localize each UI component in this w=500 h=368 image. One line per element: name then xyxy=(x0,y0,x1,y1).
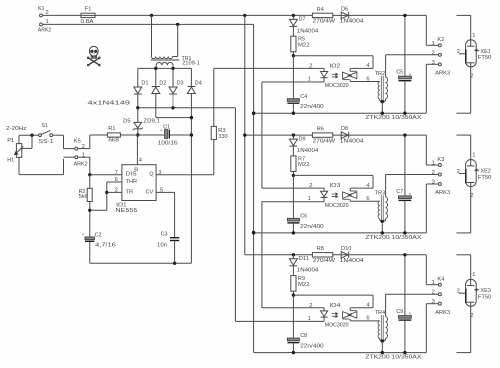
svg-text:M22: M22 xyxy=(298,162,310,168)
svg-text:R8: R8 xyxy=(317,246,324,252)
svg-text:D3: D3 xyxy=(177,80,184,86)
transformer TR1 primary lead left xyxy=(151,15,153,56)
channel bottom rail xyxy=(254,112,427,114)
svg-text:C3: C3 xyxy=(161,231,168,237)
op-amp timer IO1 NE555 body xyxy=(122,165,156,201)
svg-text:1: 1 xyxy=(472,153,475,159)
connector K2 wiring xyxy=(425,15,427,45)
svg-text:D11: D11 xyxy=(299,256,310,262)
svg-text:1N4004: 1N4004 xyxy=(297,268,319,274)
svg-text:ZTK200 10/350AX: ZTK200 10/350AX xyxy=(365,355,421,361)
diode D8 in rail xyxy=(341,132,348,139)
diode D1 xyxy=(137,68,139,87)
junction THR/TR tie xyxy=(105,191,108,194)
wire C3 to ground xyxy=(174,241,176,263)
optocoupler IO4 led xyxy=(262,307,324,309)
svg-text:2: 2 xyxy=(457,49,460,55)
transformer TR1 secondary left hook xyxy=(155,65,157,68)
svg-text:C9: C9 xyxy=(396,309,403,315)
svg-text:D4: D4 xyxy=(195,80,203,86)
flash tube XE1 trigger electrode xyxy=(465,49,467,63)
flash tube XE3 bottom electrode xyxy=(467,301,475,303)
terminal K3 pin2 xyxy=(438,173,441,176)
trigger transformer TR2 secondary top lead xyxy=(385,55,387,77)
svg-text:+: + xyxy=(409,193,412,198)
resistor R5 xyxy=(291,36,296,52)
svg-text:ARK3: ARK3 xyxy=(435,71,450,77)
svg-text:C5: C5 xyxy=(396,70,403,76)
svg-text:ARK3: ARK3 xyxy=(435,310,450,316)
wire supply rail left xyxy=(120,134,164,136)
wire K5 riser to R1 xyxy=(90,134,108,136)
terminal K5 pin 2 xyxy=(75,147,78,150)
svg-text:270/4W: 270/4W xyxy=(313,19,336,25)
diode D2 xyxy=(155,68,157,86)
diode D7 xyxy=(292,15,294,19)
svg-text:K5: K5 xyxy=(74,139,81,145)
trigger transformer TR4 secondary top lead xyxy=(385,294,387,316)
svg-text:2: 2 xyxy=(115,188,118,194)
svg-text:IO3: IO3 xyxy=(329,183,340,189)
flash tube XE2 pointer arrow xyxy=(475,169,479,172)
zener diode D5 xyxy=(137,108,139,123)
junction DIS node xyxy=(88,173,91,176)
capacitor C9 xyxy=(404,255,406,316)
svg-text:1: 1 xyxy=(432,280,435,286)
svg-text:2-20Hz: 2-20Hz xyxy=(6,126,27,132)
svg-text:D5: D5 xyxy=(123,119,131,125)
svg-text:K2: K2 xyxy=(437,37,444,43)
svg-text:D6: D6 xyxy=(341,7,348,13)
wire pot top to S1 xyxy=(19,134,39,136)
svg-text:R: R xyxy=(134,167,138,173)
junction pot wiper xyxy=(30,134,33,137)
terminal K2 pin3 xyxy=(438,63,441,66)
svg-text:MOC3020: MOC3020 xyxy=(325,203,349,209)
optocoupler IO2 arrows xyxy=(332,73,338,76)
svg-text:FT50: FT50 xyxy=(478,295,492,301)
svg-text:2: 2 xyxy=(309,63,312,69)
wire K5 pin1 left xyxy=(64,156,75,158)
svg-text:2: 2 xyxy=(470,313,473,319)
led return bus xyxy=(234,108,236,322)
svg-text:1: 1 xyxy=(432,41,435,47)
svg-text:F1: F1 xyxy=(85,6,92,12)
wire K5 pin2 right riser xyxy=(78,148,90,150)
trigger transformer TR2 secondary xyxy=(385,77,387,99)
junction top rail / transformer primary left xyxy=(150,14,153,17)
svg-text:D1: D1 xyxy=(141,80,148,86)
wire fuse to hot rail (top) xyxy=(95,14,426,16)
terminal K4 pin3 xyxy=(438,302,441,305)
transformer TR1 primary winding xyxy=(152,57,173,59)
svg-text:MOC3020: MOC3020 xyxy=(325,83,349,89)
flash tube XE1 bottom electrode xyxy=(467,62,475,64)
svg-text:TR: TR xyxy=(126,190,134,196)
transformer TR1 primary lead right xyxy=(177,24,179,56)
svg-text:22n/400: 22n/400 xyxy=(300,104,324,110)
svg-text:ARK3: ARK3 xyxy=(435,190,450,196)
svg-text:1N4004: 1N4004 xyxy=(297,148,319,154)
optocoupler IO3 arrows xyxy=(332,193,338,196)
junction C3 ground xyxy=(173,262,176,265)
wire K5 pin1 right to DIS node xyxy=(78,156,90,158)
wire R2 bottom xyxy=(89,202,91,238)
junction R2/C2/TR link xyxy=(88,209,91,212)
flash tube XE3 pointer arrow xyxy=(475,289,479,292)
svg-text:1N4004: 1N4004 xyxy=(340,138,365,144)
svg-text:K4: K4 xyxy=(437,277,445,283)
flash tube XE3 envelope xyxy=(466,279,477,306)
junction rail / D9 xyxy=(292,133,295,136)
svg-text:Q: Q xyxy=(149,172,154,178)
channel bottom rail xyxy=(254,352,427,354)
svg-text:2: 2 xyxy=(457,169,460,175)
svg-text:S1: S1 xyxy=(42,123,49,129)
svg-text:4,7/16: 4,7/16 xyxy=(95,242,116,248)
hot bus xyxy=(243,14,246,17)
svg-text:+: + xyxy=(82,233,85,238)
svg-text:ZD9,1: ZD9,1 xyxy=(143,119,160,125)
svg-text:XE1: XE1 xyxy=(480,49,491,55)
svg-text:D9: D9 xyxy=(299,136,306,142)
capacitor C8 xyxy=(292,295,294,338)
svg-text:SS-1: SS-1 xyxy=(39,139,54,145)
svg-text:D7: D7 xyxy=(299,17,306,23)
svg-text:+: + xyxy=(160,129,163,134)
wire TR link xyxy=(90,209,107,211)
junction rail / D11 xyxy=(292,253,295,256)
svg-text:2: 2 xyxy=(432,290,435,296)
flash tube XE2 trigger electrode xyxy=(465,169,467,183)
svg-text:M22: M22 xyxy=(298,282,310,288)
svg-text:100/16: 100/16 xyxy=(158,141,178,147)
svg-text:ZTK200 10/350AX: ZTK200 10/350AX xyxy=(365,235,421,241)
junction secondary right xyxy=(171,67,174,70)
trigger transformer TR2 core xyxy=(381,76,382,102)
wire R9 node to optotriac pin4 xyxy=(293,294,373,296)
trigger transformer TR3 core xyxy=(381,195,382,221)
flash tube XE2 bottom electrode xyxy=(467,182,475,184)
junction R7 node xyxy=(292,174,295,177)
optocoupler IO2 led xyxy=(323,68,325,71)
trigger transformer TR2 primary xyxy=(378,82,380,100)
svg-text:22n/400: 22n/400 xyxy=(300,344,324,350)
wire R5 node to optotriac pin4 xyxy=(293,55,373,57)
svg-text:C4: C4 xyxy=(300,94,308,100)
svg-text:IO4: IO4 xyxy=(329,303,341,309)
flash tube XE3 bracket xyxy=(456,254,470,256)
svg-text:P1: P1 xyxy=(7,138,14,144)
svg-text:270/4W: 270/4W xyxy=(313,138,336,144)
svg-text:K3: K3 xyxy=(437,157,444,163)
wire THR xyxy=(107,181,122,183)
resistor R8 in rail xyxy=(312,253,332,257)
diode D9 xyxy=(292,135,294,139)
terminal K3 pin3 xyxy=(438,183,441,186)
svg-text:IO2: IO2 xyxy=(329,63,340,69)
diode D11 xyxy=(292,255,294,259)
svg-text:1N4004: 1N4004 xyxy=(297,28,319,34)
optotriac pin6 wire xyxy=(350,320,379,322)
optotriac pin6 wire xyxy=(350,200,379,202)
optotriac pin6 wire xyxy=(350,81,379,83)
flash tube XE3 top electrode xyxy=(470,279,472,285)
optocoupler IO3 triac xyxy=(343,192,352,199)
wire DIS node to IC xyxy=(90,174,122,176)
svg-text:NE555: NE555 xyxy=(115,208,137,214)
flash tube XE1 envelope xyxy=(466,40,477,67)
svg-text:R6: R6 xyxy=(317,127,324,133)
wire K1 pin2 to fuse xyxy=(43,14,81,16)
resistor R4 in rail xyxy=(312,13,332,17)
svg-text:C6: C6 xyxy=(300,214,307,220)
wire rectifier top row xyxy=(138,67,192,69)
optocoupler IO4 arrows xyxy=(332,312,338,315)
svg-text:C2: C2 xyxy=(95,232,102,238)
junction secondary left xyxy=(154,67,157,70)
terminal K2 pin2 xyxy=(438,53,441,56)
wire led link ch1-ch2 xyxy=(262,81,324,83)
svg-text:2109-1: 2109-1 xyxy=(182,61,200,67)
flash tube XE2 top electrode xyxy=(470,160,472,166)
resistor R6 in rail xyxy=(312,133,332,137)
svg-text:1: 1 xyxy=(472,33,475,39)
capacitor C6 xyxy=(292,175,294,218)
flash tube XE2 bracket xyxy=(456,134,470,136)
trigger transformer TR4 primary xyxy=(378,321,380,339)
svg-text:2: 2 xyxy=(457,289,460,295)
svg-text:2: 2 xyxy=(432,170,435,176)
flash tube XE1 bracket xyxy=(456,14,470,16)
trigger transformer TR3 secondary xyxy=(385,197,387,219)
pin 4 reset lead xyxy=(136,135,138,165)
terminal K4 pin1 xyxy=(438,283,441,286)
wire dc rail1 xyxy=(138,107,236,109)
svg-text:+: + xyxy=(409,73,412,78)
transformer TR1 secondary winding xyxy=(156,62,173,65)
trigger transformer TR3 secondary top lead xyxy=(385,175,387,197)
svg-text:2: 2 xyxy=(309,303,312,309)
svg-text:6: 6 xyxy=(366,196,369,202)
trigger transformer TR4 secondary xyxy=(385,316,387,338)
svg-text:3: 3 xyxy=(432,60,435,66)
trigger transformer TR4 core xyxy=(381,315,382,341)
trigger transformer TR3 primary xyxy=(378,201,380,219)
svg-text:1N4004: 1N4004 xyxy=(340,258,365,264)
svg-text:3: 3 xyxy=(432,299,435,305)
svg-text:270/4W: 270/4W xyxy=(313,258,336,264)
svg-text:1: 1 xyxy=(472,272,475,278)
wire dc rail2 (D2-D4) xyxy=(156,117,192,119)
resistor R3 xyxy=(211,126,216,139)
svg-text:2: 2 xyxy=(470,74,473,80)
flash tube XE2 envelope xyxy=(466,160,477,187)
danger skull symbol xyxy=(87,46,100,66)
svg-text:1N4004: 1N4004 xyxy=(340,19,365,25)
svg-text:XE2: XE2 xyxy=(480,169,491,175)
svg-text:+: + xyxy=(409,312,412,317)
svg-text:1: 1 xyxy=(432,161,435,167)
pot wiper wire xyxy=(22,147,32,149)
svg-text:R1: R1 xyxy=(108,126,115,132)
connector K3 wiring xyxy=(425,135,427,165)
diode D4 xyxy=(190,68,192,86)
svg-text:22n/400: 22n/400 xyxy=(300,224,324,230)
fuse F1 xyxy=(81,13,95,17)
svg-text:ZTK200 10/350AX: ZTK200 10/350AX xyxy=(365,115,421,121)
trigger transformer TR3 bottom hooks xyxy=(380,219,383,222)
wire led return ch3 xyxy=(235,320,324,322)
wire K1 pin1 neutral xyxy=(43,23,254,25)
pot top lead xyxy=(18,135,20,143)
trigger transformer TR4 bottom hooks xyxy=(380,339,383,342)
svg-text:FT50: FT50 xyxy=(478,55,492,61)
junction supply rail / D4 column xyxy=(190,133,193,136)
svg-text:C8: C8 xyxy=(300,333,307,339)
junction neutral / transformer primary right xyxy=(176,23,179,26)
junction rail / D7 xyxy=(292,14,295,17)
wire channel rail from hot bus (K4 channel) xyxy=(245,254,426,256)
junction neutral / ch1 bottom rail xyxy=(252,112,255,115)
svg-text:10n: 10n xyxy=(157,243,167,249)
svg-text:D10: D10 xyxy=(341,246,352,252)
svg-text:D2: D2 xyxy=(159,80,166,86)
svg-text:7: 7 xyxy=(115,170,118,176)
svg-text:5k6: 5k6 xyxy=(79,194,88,200)
transformer TR1 core xyxy=(151,59,180,61)
svg-text:2: 2 xyxy=(309,183,312,189)
wire channel rail from hot bus (K3 channel) xyxy=(245,134,426,136)
svg-text:THR: THR xyxy=(126,179,138,185)
junction R5 node xyxy=(292,54,295,57)
optocoupler IO4 triac xyxy=(343,312,352,319)
svg-text:K1: K1 xyxy=(38,6,45,12)
wire TR xyxy=(107,191,122,193)
diode D3 xyxy=(172,68,174,87)
wire R7 node to optotriac pin4 xyxy=(293,174,373,176)
svg-text:6k8: 6k8 xyxy=(108,138,119,144)
svg-text:ARK2: ARK2 xyxy=(74,162,88,168)
svg-text:H1: H1 xyxy=(7,157,14,163)
transformer TR1 secondary right hook xyxy=(172,65,174,68)
svg-text:6: 6 xyxy=(115,177,118,183)
pot bottom lead xyxy=(18,157,20,174)
diode D10 in rail xyxy=(341,252,348,259)
resistor R9 xyxy=(291,276,296,292)
flash tube XE1 pointer arrow xyxy=(475,49,479,52)
channel bottom rail xyxy=(254,232,427,234)
svg-text:6: 6 xyxy=(366,76,369,82)
flash tube XE3 trigger electrode xyxy=(465,289,467,303)
svg-text:C7: C7 xyxy=(396,189,403,195)
svg-text:TR4: TR4 xyxy=(375,310,386,316)
wire S1 to K5 pin2 xyxy=(53,134,64,136)
svg-text:D8: D8 xyxy=(341,126,348,132)
svg-text:R4: R4 xyxy=(317,7,325,13)
diode D6 in rail xyxy=(341,12,348,19)
connector K4 wiring xyxy=(425,255,427,285)
resistor R7 xyxy=(291,156,296,172)
svg-text:4x1N4149: 4x1N4149 xyxy=(88,101,131,107)
svg-text:ARK2: ARK2 xyxy=(38,28,52,34)
neutral bus xyxy=(253,24,255,352)
terminal K2 pin1 xyxy=(438,44,441,47)
wire CV to C3 xyxy=(156,191,175,193)
terminal K5 pin 1 xyxy=(75,156,78,159)
terminal K1 pin 1 xyxy=(40,23,43,26)
wire C2 to ground rail xyxy=(89,242,91,263)
svg-text:2: 2 xyxy=(432,50,435,56)
svg-text:TR3: TR3 xyxy=(375,191,386,197)
svg-text:MOC3020: MOC3020 xyxy=(325,323,349,329)
svg-text:TR2: TR2 xyxy=(375,71,386,77)
svg-text:330: 330 xyxy=(218,134,228,140)
wire supply rail right xyxy=(170,134,191,136)
wire R3 top riser to led chain xyxy=(213,68,215,126)
resistor R1 xyxy=(107,133,120,137)
svg-text:2: 2 xyxy=(470,193,473,199)
capacitor C4 xyxy=(292,56,294,99)
capacitor C5 xyxy=(404,15,406,76)
svg-text:M22: M22 xyxy=(298,42,310,48)
trigger transformer TR2 bottom hooks xyxy=(380,99,383,102)
wire led link ch2-ch3 xyxy=(262,201,324,203)
resistor R2 xyxy=(89,175,91,189)
terminal K1 pin 2 xyxy=(40,14,43,17)
capacitor C7 xyxy=(404,135,406,196)
svg-text:CV: CV xyxy=(145,190,153,196)
wire Q to R3 xyxy=(213,140,215,175)
terminal K4 pin2 xyxy=(438,293,441,296)
optocoupler IO3 led xyxy=(262,187,324,189)
terminal K3 pin1 xyxy=(438,164,441,167)
junction D5 / supply rail / 555 reset lead xyxy=(136,133,139,136)
flash tube XE1 top electrode xyxy=(470,40,472,46)
junction neutral / ch2 bottom rail xyxy=(252,231,255,234)
svg-text:3: 3 xyxy=(432,180,435,186)
optocoupler IO2 triac xyxy=(343,72,352,79)
junction R9 node xyxy=(292,293,295,296)
svg-text:FT50: FT50 xyxy=(478,175,492,181)
svg-text:XE3: XE3 xyxy=(480,288,491,294)
wire Q output xyxy=(156,174,214,176)
svg-text:6: 6 xyxy=(366,316,369,322)
